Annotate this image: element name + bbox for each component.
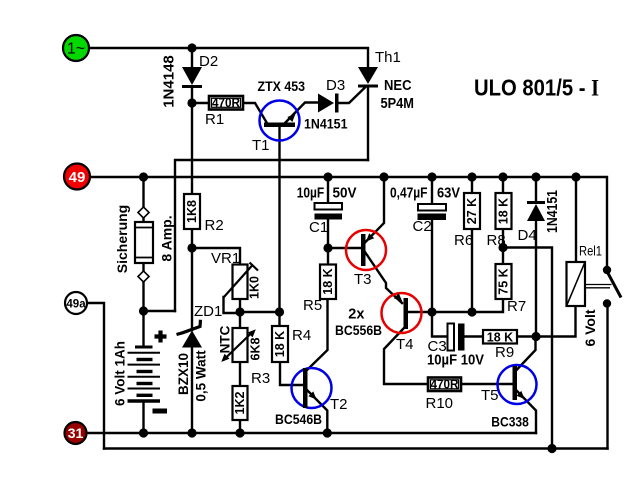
transistor T2 BC546B	[292, 368, 332, 408]
svg-text:Rel1: Rel1	[579, 243, 602, 259]
junction C1 / R5 / T3 base	[323, 243, 332, 252]
wire fuse bottom lead	[142, 280, 144, 311]
svg-text:10µF 10V: 10µF 10V	[427, 353, 484, 369]
wire node y312 to R4	[240, 312, 280, 326]
wire C3 left lead	[432, 312, 447, 337]
svg-text:1K8: 1K8	[185, 200, 199, 223]
wire battery top lead	[142, 311, 144, 346]
wire R9 right to node	[517, 335, 536, 337]
svg-text:T1: T1	[252, 137, 270, 154]
diode D2 1N4148	[182, 67, 202, 88]
svg-text:R3: R3	[251, 370, 270, 387]
wire D2 cathode to node	[191, 87, 193, 103]
svg-text:BZX10: BZX10	[176, 353, 191, 395]
wire 49 bus	[90, 177, 607, 268]
wire R1 left lead	[192, 102, 208, 104]
junction T4 base row / C3	[427, 307, 436, 316]
wire C1 bottom	[327, 220, 329, 249]
wire R6 top	[471, 177, 473, 193]
wire bottom return bus	[104, 447, 608, 449]
wire node to relay bottom	[536, 306, 576, 337]
svg-text:R2: R2	[205, 217, 224, 234]
wire y311 fuse bottom to frame	[144, 310, 176, 312]
resistor R3 1K2 box	[233, 386, 248, 420]
wire T5 emitter down to 31 bus	[516, 390, 536, 433]
svg-text:T4: T4	[396, 336, 414, 353]
node 49a terminal	[65, 292, 87, 314]
battery 6 Volt 1Ah	[128, 347, 161, 401]
svg-text:63V: 63V	[437, 186, 460, 202]
wire R6 bottom	[471, 229, 473, 312]
svg-text:1N4148: 1N4148	[161, 55, 178, 108]
transistor T1 ZTX453	[260, 101, 300, 141]
wire D4 anode down	[535, 221, 537, 337]
resistor R5 18K box	[320, 265, 336, 300]
junction 49 bus / T3 emitter	[379, 172, 388, 181]
svg-text:T3: T3	[354, 271, 372, 288]
svg-text:50V: 50V	[333, 186, 357, 202]
wire R4 bottom to T2 base	[280, 362, 303, 385]
thyristor Th1 NEC 5P4M	[358, 67, 378, 88]
diode D3 1N4151	[318, 94, 339, 113]
wire C1 top	[327, 177, 329, 203]
wire D2 anode	[191, 48, 193, 68]
svg-text:0,5 Watt: 0,5 Watt	[194, 350, 209, 402]
junction T4 base row / R6	[467, 307, 476, 316]
node 31 terminal	[65, 422, 87, 444]
resistor R9 18K box	[483, 330, 517, 344]
battery plus sign	[155, 331, 167, 343]
svg-text:VR1: VR1	[211, 250, 240, 267]
wire T3 emitter up to bus	[366, 177, 385, 242]
wire C3 right to R9	[465, 335, 483, 337]
wire T2 collector up to R5	[307, 299, 328, 370]
svg-text:BC556B: BC556B	[335, 322, 382, 338]
NTC 6K8 box	[221, 328, 256, 362]
junction 49 bus / R6	[467, 172, 476, 181]
svg-text:1~: 1~	[67, 41, 85, 58]
svg-text:Sicherung: Sicherung	[114, 205, 130, 273]
junction D2 / R1 / R2	[187, 98, 196, 107]
svg-text:6 Volt: 6 Volt	[582, 309, 598, 346]
svg-text:10µF: 10µF	[297, 186, 325, 202]
junction fuse / battery / frame	[139, 306, 148, 315]
svg-text:27 K: 27 K	[465, 198, 479, 224]
svg-text:T2: T2	[330, 396, 348, 413]
svg-text:T5: T5	[481, 387, 499, 404]
relay Rel1 coil box	[567, 262, 612, 306]
wire R1 right lead to T1 base	[243, 103, 268, 124]
junction 49 bus / D4	[531, 172, 540, 181]
svg-text:R8: R8	[487, 232, 506, 249]
svg-text:5P4M: 5P4M	[381, 96, 415, 112]
resistor R6 27K box	[464, 193, 480, 229]
wire T1 emitter to D3	[285, 103, 318, 124]
resistor R1 470R box	[209, 96, 243, 110]
svg-text:D4: D4	[518, 227, 537, 244]
svg-text:1N4151: 1N4151	[545, 190, 561, 233]
relay switch contact	[603, 266, 621, 308]
wire ZD1 anode down to 31 bus	[191, 347, 193, 433]
junction VR1 / NTC / node row	[235, 307, 244, 316]
svg-text:R4: R4	[292, 327, 311, 344]
junction 31 bus / R3	[235, 428, 244, 437]
transistor T5 BC338	[498, 365, 537, 404]
wire node y248 to right drop	[503, 248, 552, 449]
wire top bus from node 1~ to Th1	[89, 48, 368, 66]
svg-text:1K0: 1K0	[248, 276, 262, 299]
svg-text:ULO 801/5 - I: ULO 801/5 - I	[474, 75, 599, 101]
svg-text:18 K: 18 K	[487, 331, 513, 345]
wire T2 emitter to 31 bus	[307, 390, 327, 433]
svg-text:R10: R10	[426, 395, 454, 412]
svg-text:31: 31	[68, 425, 84, 441]
wire 49a node lead	[88, 303, 104, 449]
junction 49 bus / fuse	[139, 172, 148, 181]
svg-text:Th1: Th1	[375, 49, 401, 66]
svg-text:R5: R5	[303, 297, 322, 314]
zener diode ZD1 BZX10	[177, 320, 203, 348]
svg-text:470R: 470R	[212, 96, 240, 110]
svg-text:BC546B: BC546B	[275, 411, 322, 427]
junction 31 bus / battery minus	[139, 428, 148, 437]
wire D4 top	[535, 177, 537, 201]
capacitor C3 10uF 10V	[448, 324, 465, 351]
svg-text:NTC: NTC	[218, 325, 233, 353]
wire fuse top lead	[142, 177, 144, 209]
svg-text:18 K: 18 K	[497, 198, 511, 224]
svg-text:R1: R1	[205, 111, 224, 128]
wire NTC to R3	[239, 362, 241, 386]
wire T1 collector down	[278, 127, 280, 312]
svg-text:1K2: 1K2	[233, 391, 247, 414]
svg-text:R7: R7	[507, 298, 526, 315]
svg-text:6 Volt 1Ah: 6 Volt 1Ah	[113, 341, 128, 406]
diode D4 1N4151	[527, 201, 545, 221]
wire horizontal y160 to left frame	[175, 160, 368, 311]
svg-text:BC338: BC338	[491, 414, 529, 430]
svg-text:75 K: 75 K	[497, 268, 511, 294]
wire C2 bottom	[431, 220, 433, 312]
wire Th1 cathode down	[367, 87, 369, 160]
wire battery bottom lead	[142, 402, 144, 433]
junction 49 bus / C1	[323, 172, 332, 181]
svg-text:C1: C1	[309, 219, 328, 236]
junction 49 bus / C2	[427, 172, 436, 181]
resistor R10 470R box	[428, 378, 461, 392]
wire T3 collector to T4 emitter	[365, 252, 402, 303]
wire fuse body gap leads	[142, 216, 144, 273]
svg-text:8 Amp.: 8 Amp.	[159, 215, 175, 261]
resistor R2 1K8 box	[184, 194, 200, 229]
wire R10 right to T5 base	[462, 383, 513, 385]
wire C2 top	[431, 177, 433, 204]
wire R8 R7 junction	[502, 229, 504, 264]
svg-text:R6: R6	[454, 232, 473, 249]
node 1~ terminal	[63, 35, 89, 61]
svg-text:18 K: 18 K	[273, 331, 287, 357]
svg-text:C2: C2	[413, 218, 432, 235]
junction 49 bus / R8	[498, 172, 507, 181]
wire node to VR1 top	[192, 248, 240, 265]
resistor R4 18K box	[272, 326, 288, 362]
wire R2 branch D2 to R2	[191, 103, 193, 194]
fuse Sicherung 8 Amp	[135, 207, 153, 282]
svg-text:49a: 49a	[66, 299, 86, 311]
junction return bus / drop wire	[547, 444, 556, 453]
capacitor C1 10uF 50V	[315, 203, 343, 220]
wire T3 base	[328, 247, 361, 249]
node 49 terminal	[64, 164, 90, 190]
junction 31 bus / ZD1	[187, 428, 196, 437]
capacitor C2 0,47uF 63V	[418, 204, 447, 220]
junction top bus / D2	[187, 43, 196, 52]
wire ZD1 branch	[191, 248, 193, 330]
svg-text:ZD1: ZD1	[194, 303, 222, 320]
transistor T4 BC556B	[382, 293, 422, 333]
wire R3 bottom	[239, 420, 241, 433]
svg-text:6K8: 6K8	[249, 337, 263, 360]
wire T5 collector	[517, 337, 536, 370]
wire T4 base row y312	[408, 299, 503, 312]
svg-text:1N4151: 1N4151	[304, 117, 348, 132]
resistor R7 75K box	[496, 264, 512, 299]
battery minus sign	[153, 409, 168, 414]
junction 31 bus / T2 emitter	[323, 428, 332, 437]
wire R5 top	[327, 248, 329, 265]
trimmer VR1 1K0 box	[224, 263, 259, 300]
wire VR1 wiper foot	[224, 297, 241, 313]
svg-text:NEC: NEC	[384, 78, 412, 94]
wire relay coil top	[575, 177, 577, 262]
svg-text:R9: R9	[495, 344, 514, 361]
transistor T3 BC556B	[346, 230, 386, 270]
svg-text:18 K: 18 K	[321, 268, 335, 294]
wire D3 cathode to Th1 gate	[339, 87, 367, 104]
wire R2 bottom	[191, 229, 193, 248]
svg-text:470R: 470R	[431, 377, 459, 391]
svg-text:0,47µF: 0,47µF	[390, 186, 428, 202]
wire VR1 bottom	[239, 299, 241, 328]
junction R2 / ZD1 / VR1	[187, 243, 196, 252]
junction R8 / R7 / drop wire	[498, 243, 507, 252]
svg-text:D2: D2	[199, 53, 218, 70]
junction 49 bus / relay coil	[571, 172, 580, 181]
wire T4 collector to R10	[384, 328, 427, 384]
resistor R8 18K box	[496, 193, 512, 229]
junction D4 / R9 / T5 collector / relay	[531, 332, 540, 341]
wire switch lower contact down	[606, 304, 608, 449]
wire R8 top	[502, 177, 504, 193]
svg-text:49: 49	[69, 169, 86, 186]
svg-text:ZTX 453: ZTX 453	[258, 79, 306, 94]
wire 31 bus	[88, 432, 536, 434]
svg-text:D3: D3	[326, 77, 345, 94]
junction T1 collector / R4	[275, 307, 284, 316]
svg-text:2x: 2x	[348, 307, 364, 323]
